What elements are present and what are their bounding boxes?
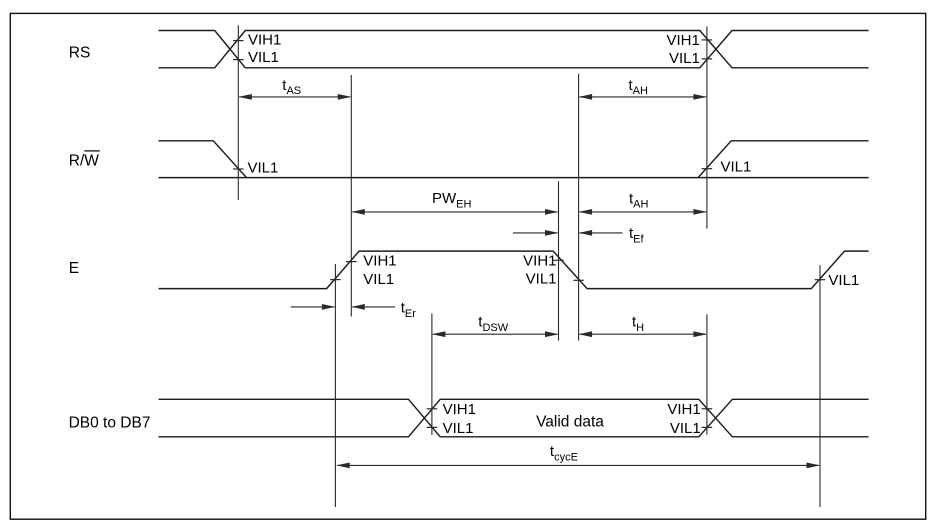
svg-text:VIH1: VIH1 <box>248 31 281 48</box>
svg-text:VIH1: VIH1 <box>523 252 556 269</box>
svg-text:Valid data: Valid data <box>536 414 604 431</box>
svg-text:tH: tH <box>632 314 644 334</box>
svg-text:tcycE: tcycE <box>550 443 578 463</box>
svg-text:VIL1: VIL1 <box>248 159 279 176</box>
svg-text:VIL1: VIL1 <box>670 420 701 437</box>
svg-text:DB0 to DB7: DB0 to DB7 <box>69 414 151 431</box>
svg-text:VIL1: VIL1 <box>363 271 394 288</box>
svg-text:VIH1: VIH1 <box>666 32 699 49</box>
svg-text:VIH1: VIH1 <box>667 401 700 418</box>
svg-text:R/W: R/W <box>69 153 100 170</box>
svg-text:VIL1: VIL1 <box>248 49 279 66</box>
svg-text:VIH1: VIH1 <box>443 401 476 418</box>
svg-text:PWEH: PWEH <box>432 190 472 210</box>
svg-text:tDSW: tDSW <box>478 314 508 334</box>
svg-text:RS: RS <box>69 45 91 62</box>
svg-text:E: E <box>69 260 79 277</box>
svg-text:tAH: tAH <box>629 190 649 210</box>
svg-text:tEr: tEr <box>401 299 417 319</box>
svg-text:tAH: tAH <box>629 77 649 97</box>
svg-text:VIL1: VIL1 <box>526 271 557 288</box>
svg-text:tAS: tAS <box>282 77 301 97</box>
svg-text:VIH1: VIH1 <box>363 252 396 269</box>
svg-text:VIL1: VIL1 <box>721 158 752 175</box>
svg-text:VIL1: VIL1 <box>828 272 859 289</box>
svg-text:tEf: tEf <box>629 225 645 245</box>
svg-text:VIL1: VIL1 <box>669 50 700 67</box>
svg-text:VIL1: VIL1 <box>443 420 474 437</box>
